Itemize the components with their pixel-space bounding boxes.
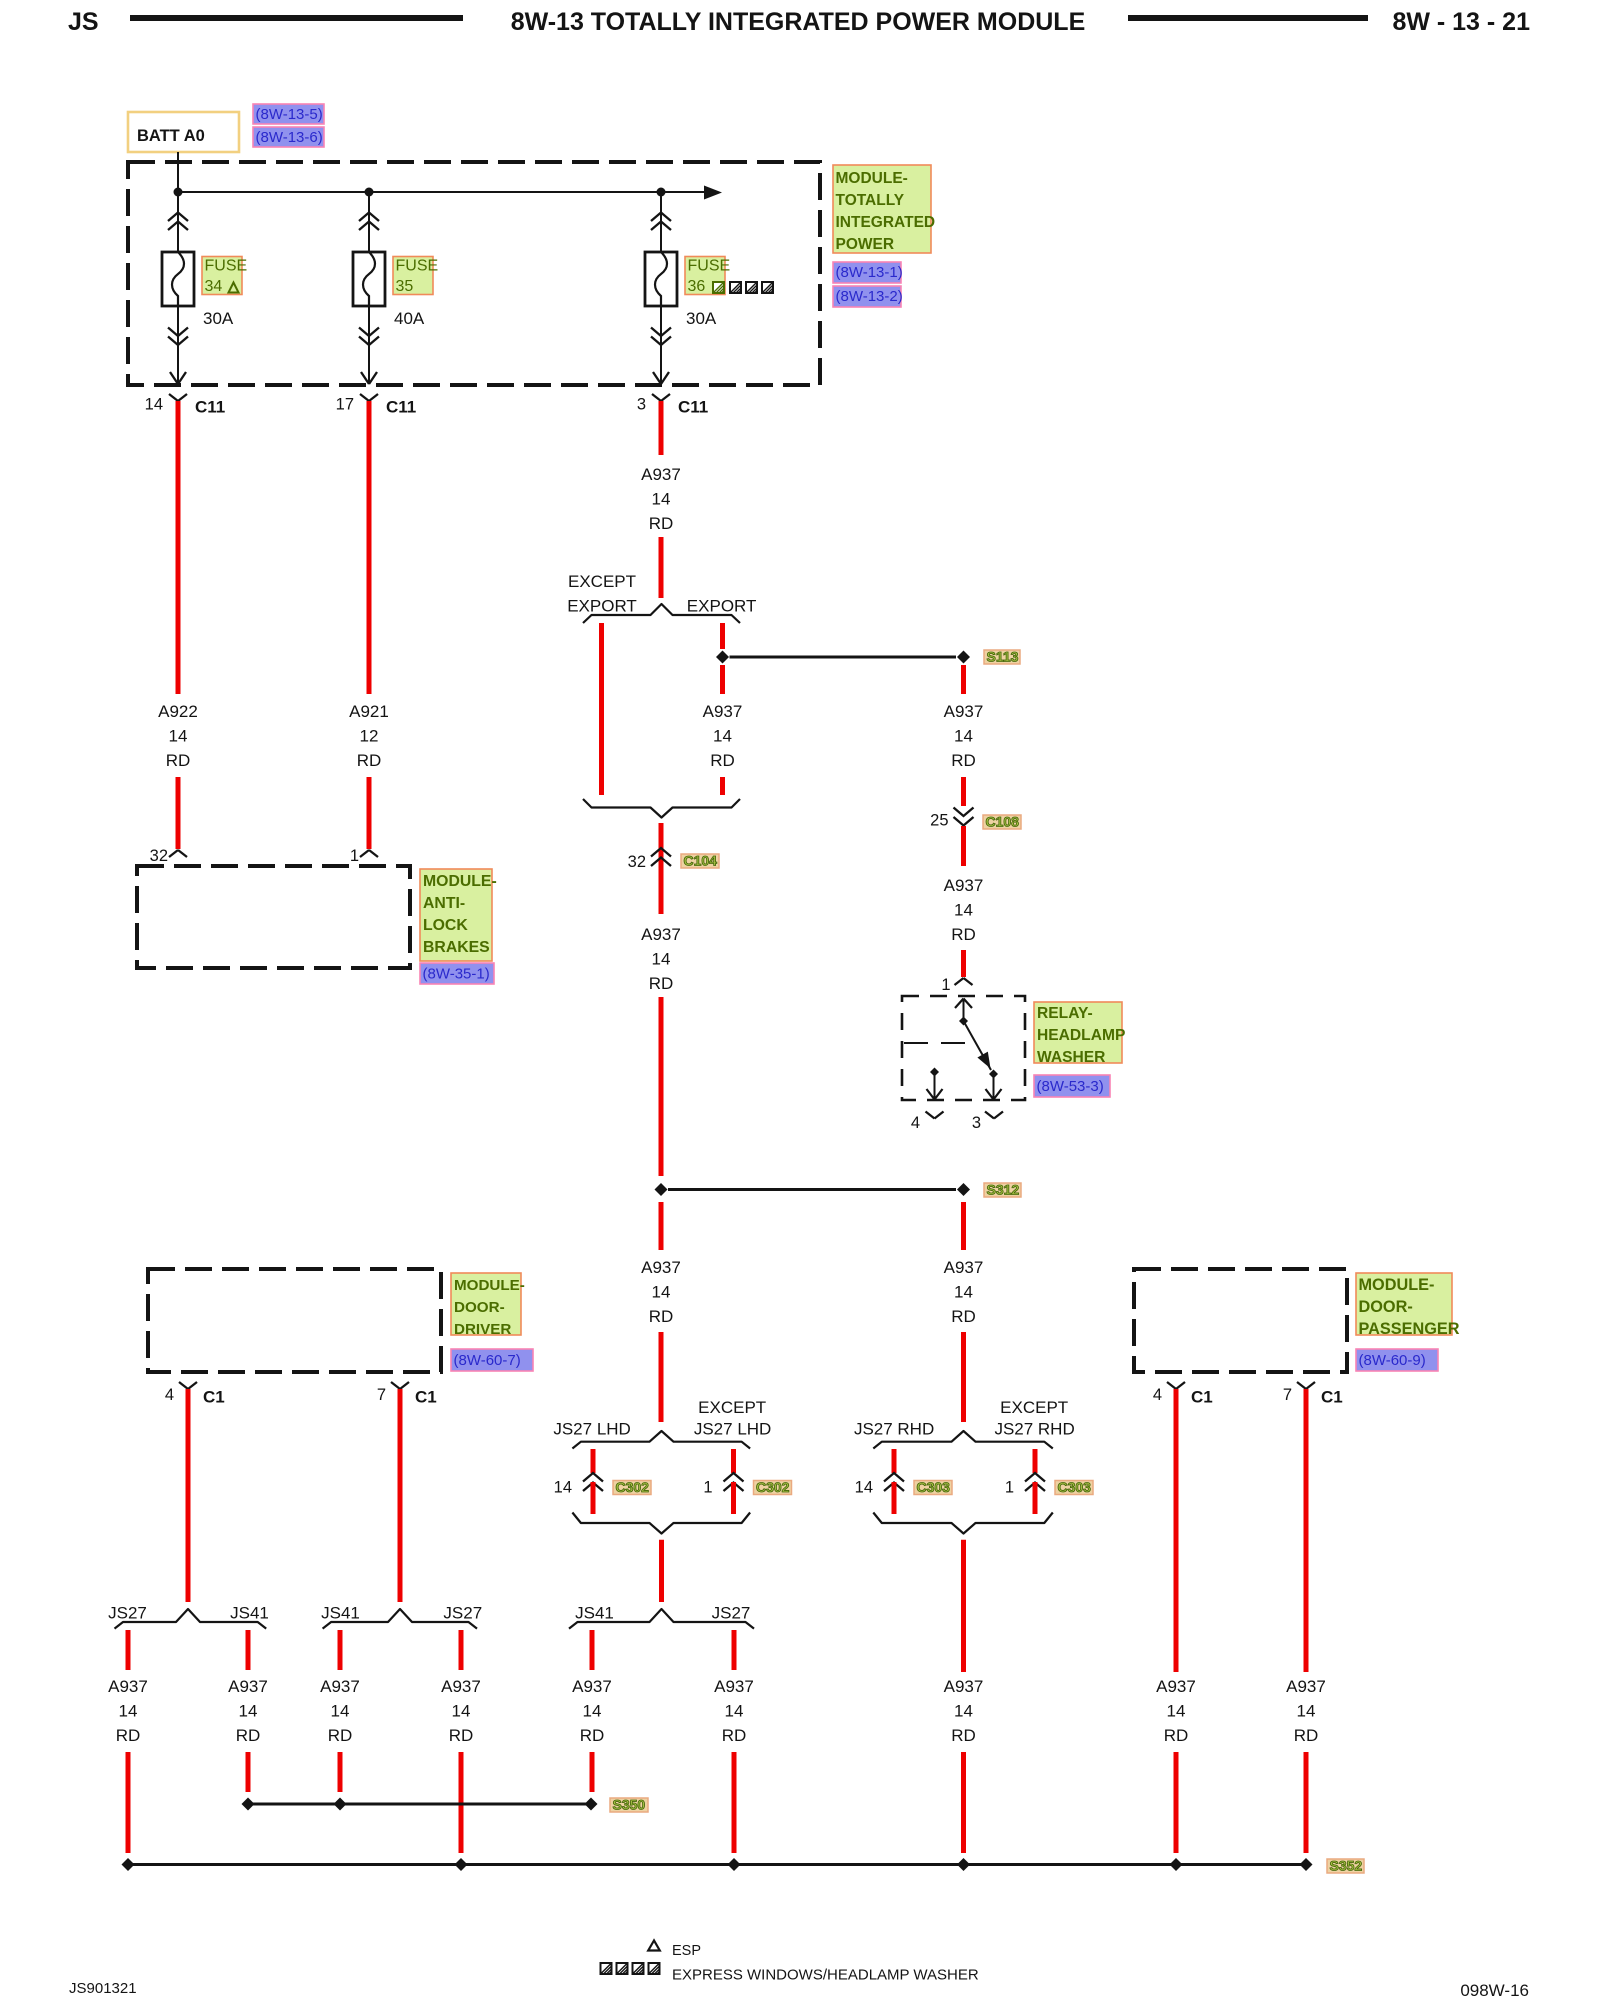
svg-text:(8W-60-9): (8W-60-9)	[1359, 1352, 1426, 1369]
svg-text:C1: C1	[1321, 1388, 1343, 1407]
svg-text:RD: RD	[236, 1726, 261, 1745]
svg-text:JS27: JS27	[108, 1604, 147, 1623]
svg-text:4: 4	[1153, 1386, 1162, 1404]
svg-text:14: 14	[1297, 1702, 1316, 1721]
svg-text:JS27: JS27	[443, 1604, 482, 1623]
svg-text:14: 14	[239, 1702, 258, 1721]
svg-text:A937: A937	[441, 1677, 481, 1696]
svg-text:EXCEPT: EXCEPT	[568, 572, 636, 591]
svg-text:C108: C108	[986, 814, 1020, 830]
svg-text:RD: RD	[951, 925, 976, 944]
svg-text:HEADLAMP: HEADLAMP	[1037, 1027, 1125, 1044]
svg-text:RD: RD	[166, 751, 191, 770]
svg-text:RELAY-: RELAY-	[1037, 1005, 1093, 1022]
svg-text:FUSE: FUSE	[688, 258, 731, 275]
svg-text:A937: A937	[641, 465, 681, 484]
svg-text:36: 36	[688, 278, 706, 295]
svg-text:MODULE-: MODULE-	[1359, 1276, 1435, 1294]
svg-text:S312: S312	[987, 1182, 1020, 1198]
svg-text:LOCK: LOCK	[423, 917, 468, 934]
svg-text:PASSENGER: PASSENGER	[1359, 1320, 1460, 1338]
svg-text:TOTALLY: TOTALLY	[836, 192, 905, 209]
svg-text:RD: RD	[722, 1726, 747, 1745]
svg-text:A921: A921	[349, 702, 389, 721]
svg-text:4: 4	[165, 1386, 174, 1404]
svg-text:C302: C302	[616, 1479, 650, 1495]
svg-text:C1: C1	[415, 1388, 437, 1407]
svg-text:(8W-13-6): (8W-13-6)	[256, 129, 323, 146]
svg-text:C104: C104	[684, 853, 718, 869]
svg-text:RD: RD	[357, 751, 382, 770]
svg-text:C11: C11	[678, 398, 708, 417]
svg-text:14: 14	[713, 727, 732, 746]
svg-text:14: 14	[452, 1702, 471, 1721]
svg-text:JS41: JS41	[321, 1604, 360, 1623]
svg-text:A937: A937	[703, 702, 743, 721]
svg-text:3: 3	[972, 1114, 981, 1132]
svg-text:JS41: JS41	[230, 1604, 269, 1623]
svg-text:RD: RD	[649, 514, 674, 533]
svg-text:RD: RD	[328, 1726, 353, 1745]
svg-text:12: 12	[360, 727, 379, 746]
svg-text:17: 17	[336, 396, 354, 414]
svg-text:RD: RD	[1294, 1726, 1319, 1745]
svg-text:(8W-13-5): (8W-13-5)	[256, 106, 323, 123]
svg-text:C1: C1	[203, 1388, 225, 1407]
svg-text:A937: A937	[641, 1258, 681, 1277]
svg-text:C302: C302	[756, 1479, 790, 1495]
svg-text:EXPORT: EXPORT	[687, 597, 757, 616]
svg-text:FUSE: FUSE	[396, 258, 439, 275]
svg-text:14: 14	[331, 1702, 350, 1721]
svg-text:1: 1	[350, 847, 359, 865]
svg-text:14: 14	[145, 396, 163, 414]
svg-text:A937: A937	[714, 1677, 754, 1696]
svg-text:RD: RD	[951, 1726, 976, 1745]
svg-text:MODULE-: MODULE-	[423, 873, 497, 890]
svg-text:7: 7	[377, 1386, 386, 1404]
svg-text:C11: C11	[386, 398, 416, 417]
svg-text:S350: S350	[613, 1797, 646, 1813]
svg-text:40A: 40A	[394, 309, 425, 328]
svg-text:1: 1	[1005, 1478, 1014, 1496]
svg-text:14: 14	[652, 950, 671, 969]
svg-text:A937: A937	[1286, 1677, 1326, 1696]
svg-text:14: 14	[652, 490, 671, 509]
svg-text:RD: RD	[649, 974, 674, 993]
svg-text:EXCEPT: EXCEPT	[698, 1398, 766, 1417]
svg-text:14: 14	[954, 727, 973, 746]
svg-text:JS27 RHD: JS27 RHD	[994, 1420, 1074, 1439]
svg-text:JS41: JS41	[575, 1604, 614, 1623]
svg-text:A937: A937	[320, 1677, 360, 1696]
svg-text:JS27: JS27	[712, 1604, 751, 1623]
svg-text:JS27 RHD: JS27 RHD	[854, 1420, 934, 1439]
svg-text:14: 14	[954, 1283, 973, 1302]
svg-text:14: 14	[119, 1702, 138, 1721]
svg-text:BRAKES: BRAKES	[423, 939, 490, 956]
svg-text:7: 7	[1283, 1386, 1292, 1404]
svg-text:S352: S352	[1330, 1858, 1363, 1874]
svg-text:14: 14	[583, 1702, 602, 1721]
svg-text:25: 25	[930, 812, 948, 830]
svg-text:JS901321: JS901321	[69, 1980, 137, 1997]
svg-text:DRIVER: DRIVER	[454, 1321, 511, 1338]
svg-text:ESP: ESP	[672, 1943, 701, 1959]
svg-text:(8W-13-1): (8W-13-1)	[836, 264, 903, 281]
svg-text:RD: RD	[951, 1307, 976, 1326]
svg-text:JS: JS	[68, 8, 99, 36]
svg-text:32: 32	[150, 847, 168, 865]
svg-text:MODULE-: MODULE-	[454, 1277, 525, 1294]
svg-text:EXPRESS WINDOWS/HEADLAMP WASHE: EXPRESS WINDOWS/HEADLAMP WASHER	[672, 1967, 979, 1984]
svg-text:8W-13 TOTALLY INTEGRATED POWER: 8W-13 TOTALLY INTEGRATED POWER MODULE	[511, 8, 1086, 36]
svg-text:C303: C303	[917, 1479, 951, 1495]
svg-text:3: 3	[637, 396, 646, 414]
svg-text:A937: A937	[944, 702, 984, 721]
svg-text:A937: A937	[572, 1677, 612, 1696]
svg-text:RD: RD	[116, 1726, 141, 1745]
svg-text:A937: A937	[641, 925, 681, 944]
svg-text:JS27 LHD: JS27 LHD	[694, 1420, 771, 1439]
svg-text:EXCEPT: EXCEPT	[1000, 1398, 1068, 1417]
svg-text:DOOR-: DOOR-	[454, 1299, 505, 1316]
svg-text:30A: 30A	[686, 309, 717, 328]
svg-text:32: 32	[628, 853, 646, 871]
svg-text:RD: RD	[1164, 1726, 1189, 1745]
svg-text:4: 4	[911, 1114, 920, 1132]
svg-text:FUSE: FUSE	[205, 258, 248, 275]
svg-text:DOOR-: DOOR-	[1359, 1298, 1413, 1316]
svg-text:RD: RD	[449, 1726, 474, 1745]
svg-text:14: 14	[1167, 1702, 1186, 1721]
svg-text:A937: A937	[944, 1258, 984, 1277]
svg-text:RD: RD	[580, 1726, 605, 1745]
svg-text:MODULE-: MODULE-	[836, 170, 908, 187]
svg-text:A937: A937	[228, 1677, 268, 1696]
svg-text:BATT A0: BATT A0	[137, 127, 205, 145]
svg-text:14: 14	[725, 1702, 744, 1721]
svg-text:34: 34	[205, 278, 223, 295]
svg-text:098W-16: 098W-16	[1460, 1981, 1529, 2000]
svg-text:A922: A922	[158, 702, 198, 721]
svg-text:1: 1	[703, 1478, 712, 1496]
svg-text:C11: C11	[195, 398, 225, 417]
svg-text:(8W-53-3): (8W-53-3)	[1037, 1078, 1104, 1095]
svg-text:EXPORT: EXPORT	[567, 597, 637, 616]
svg-text:S113: S113	[987, 649, 1019, 665]
svg-text:RD: RD	[649, 1307, 674, 1326]
svg-text:ANTI-: ANTI-	[423, 895, 465, 912]
svg-text:(8W-60-7): (8W-60-7)	[454, 1352, 521, 1369]
svg-text:14: 14	[652, 1283, 671, 1302]
svg-text:(8W-35-1): (8W-35-1)	[423, 966, 490, 983]
svg-text:RD: RD	[951, 751, 976, 770]
svg-text:JS27 LHD: JS27 LHD	[553, 1420, 630, 1439]
svg-text:A937: A937	[108, 1677, 148, 1696]
svg-text:30A: 30A	[203, 309, 234, 328]
svg-text:(8W-13-2): (8W-13-2)	[836, 288, 903, 305]
svg-text:C1: C1	[1191, 1388, 1213, 1407]
svg-text:RD: RD	[710, 751, 735, 770]
svg-text:35: 35	[396, 278, 414, 295]
svg-text:A937: A937	[944, 1677, 984, 1696]
svg-text:POWER: POWER	[836, 236, 895, 253]
svg-text:A937: A937	[1156, 1677, 1196, 1696]
svg-text:14: 14	[169, 727, 188, 746]
svg-text:14: 14	[855, 1478, 873, 1496]
svg-text:14: 14	[954, 901, 973, 920]
svg-text:INTEGRATED: INTEGRATED	[836, 214, 936, 231]
svg-text:14: 14	[554, 1478, 572, 1496]
svg-text:14: 14	[954, 1702, 973, 1721]
svg-text:A937: A937	[944, 876, 984, 895]
svg-text:WASHER: WASHER	[1037, 1049, 1105, 1066]
svg-text:C303: C303	[1058, 1479, 1092, 1495]
svg-text:8W - 13 - 21: 8W - 13 - 21	[1392, 8, 1530, 36]
svg-text:1: 1	[941, 976, 950, 994]
